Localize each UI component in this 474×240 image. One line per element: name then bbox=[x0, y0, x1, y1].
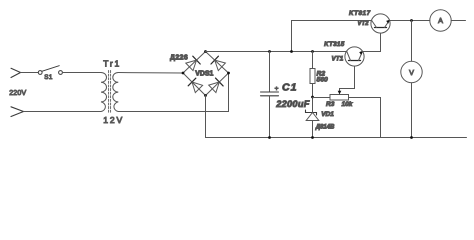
svg-text:12V: 12V bbox=[103, 115, 124, 125]
node bridge right junction bbox=[227, 72, 230, 75]
wire switch to transformer primary top bbox=[62, 72, 101, 74]
wire VT1 emitter to VT2 base bbox=[362, 33, 380, 51]
svg-text:KT315: KT315 bbox=[324, 41, 345, 48]
capacitor C1 bbox=[261, 92, 279, 96]
wire bottom rail bbox=[206, 137, 467, 139]
node R2 R3 VD1 junction bbox=[311, 96, 314, 99]
diode D4 bottom-right edge bbox=[209, 78, 223, 93]
wire secondary top to bridge left node bbox=[118, 72, 183, 75]
svg-text:KT817: KT817 bbox=[349, 10, 371, 17]
node bridge left junction bbox=[182, 72, 185, 75]
svg-text:VT2: VT2 bbox=[358, 21, 370, 27]
transformer Tr1 primary winding bbox=[101, 73, 107, 112]
svg-text:+: + bbox=[275, 86, 279, 93]
potentiometer R3 bbox=[330, 95, 349, 101]
svg-text:2200uF: 2200uF bbox=[275, 99, 310, 109]
node R2 top junction bbox=[311, 50, 314, 53]
svg-text:560: 560 bbox=[317, 77, 328, 84]
wire VD1 bottom lead bbox=[312, 121, 314, 138]
wire C1 top lead bbox=[269, 52, 271, 93]
node C1 top junction bbox=[268, 50, 271, 53]
voltmeter V bbox=[401, 61, 422, 82]
wire VT2 emitter to ammeter bbox=[390, 20, 430, 22]
node voltmeter top junction bbox=[410, 19, 413, 22]
terminal plug bottom-left bbox=[11, 107, 24, 117]
node VT2 feed junction bbox=[290, 50, 293, 53]
transformer Tr1 core bbox=[109, 71, 111, 114]
svg-text:V: V bbox=[409, 68, 414, 77]
diode D3 bottom-left edge bbox=[188, 78, 202, 92]
wire secondary bottom to bridge right node bbox=[118, 73, 228, 112]
wire bridge bottom to ground rail bbox=[205, 96, 207, 138]
resistor R2 bbox=[310, 69, 315, 84]
svg-text:S1: S1 bbox=[44, 74, 53, 81]
diode D2 top-right edge bbox=[211, 56, 225, 70]
svg-text:Tr1: Tr1 bbox=[103, 58, 121, 68]
node bridge bottom junction bbox=[204, 94, 207, 97]
wire junction to R3 left bbox=[313, 97, 331, 99]
wire R3 right lead to ground rail bbox=[349, 98, 381, 138]
wire R2 bottom lead to zener bbox=[312, 84, 314, 113]
node bridge top junction bbox=[204, 50, 207, 53]
svg-text:A: A bbox=[438, 16, 443, 25]
svg-text:R3: R3 bbox=[326, 101, 335, 108]
svg-text:220V: 220V bbox=[9, 90, 26, 97]
transistor VT1 KT315 bbox=[345, 47, 364, 66]
R3 wiper arrow bbox=[338, 66, 355, 94]
wire R2 top lead bbox=[312, 52, 314, 69]
wire VT2 collector feed bbox=[292, 21, 372, 52]
node VD1 bottom junction bbox=[311, 136, 314, 139]
ammeter A bbox=[430, 10, 451, 31]
svg-text:VD1: VD1 bbox=[321, 111, 334, 118]
zener diode VD1 bbox=[306, 110, 319, 121]
transistor VT2 KT817 bbox=[371, 14, 390, 33]
svg-text:VDS1: VDS1 bbox=[195, 71, 213, 78]
diode D1 top-left edge bbox=[186, 56, 200, 70]
svg-text:Д814В: Д814В bbox=[315, 124, 335, 130]
wire voltmeter branch top bbox=[411, 21, 413, 62]
node C1 bottom junction bbox=[268, 136, 271, 139]
svg-text:10k: 10k bbox=[342, 101, 353, 108]
wire from top terminal to switch bbox=[21, 72, 39, 74]
wire ammeter to output bbox=[451, 20, 465, 22]
wire voltmeter branch bottom bbox=[411, 83, 413, 138]
node voltmeter bottom junction bbox=[410, 136, 413, 139]
wire positive rail from bridge top bbox=[206, 51, 347, 53]
svg-text:C1: C1 bbox=[282, 82, 297, 94]
bridge rectifier VDS1 diamond edges bbox=[183, 52, 229, 96]
terminal plug top-left bbox=[11, 68, 21, 77]
wire from bottom terminal to transformer primary bottom bbox=[24, 111, 102, 113]
svg-text:Д226: Д226 bbox=[170, 54, 188, 61]
wire C1 bottom lead bbox=[269, 96, 271, 138]
svg-text:VT1: VT1 bbox=[332, 56, 344, 63]
switch S1 bbox=[38, 66, 62, 75]
transformer Tr1 secondary winding bbox=[113, 73, 119, 112]
